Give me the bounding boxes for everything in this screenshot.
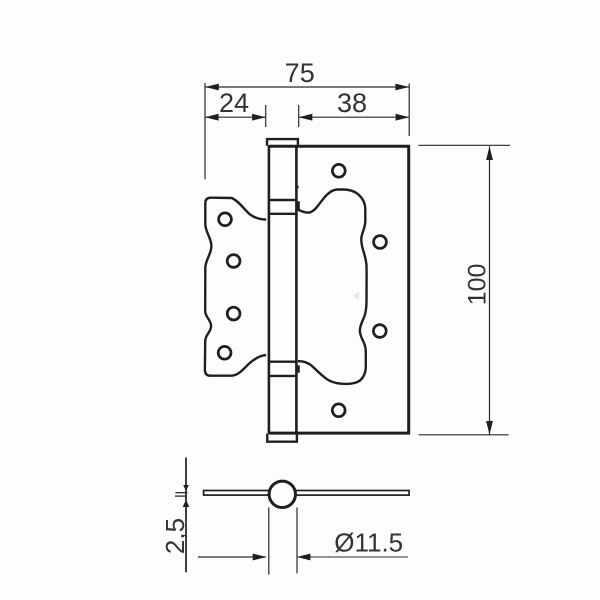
extension line right — [408, 84, 410, 137]
svg-text:75: 75 — [285, 58, 315, 88]
barrel knuckle divider 2 — [268, 213, 298, 215]
svg-text:2,5: 2,5 — [160, 518, 190, 554]
watermark arrow — [352, 292, 359, 299]
arrow 100 top — [486, 146, 493, 160]
barrel bottom cap — [267, 434, 297, 442]
extension line knuckle left — [265, 105, 267, 127]
barrel top joint lug — [297, 201, 300, 210]
barrel right edge — [295, 145, 298, 434]
right leaf hole bottom — [332, 404, 345, 417]
extension line 100 top — [418, 144, 510, 146]
svg-text:100: 100 — [464, 264, 492, 306]
barrel knuckle divider 1 — [268, 199, 298, 201]
right leaf hole lower right — [373, 325, 386, 338]
left leaf outline — [205, 198, 266, 376]
tick 2.5 lower — [175, 495, 187, 497]
right leaf hole upper right — [374, 236, 387, 249]
dimension line 75 — [205, 86, 409, 88]
dimension line diameter right — [297, 556, 408, 558]
dimension line 24 — [205, 116, 266, 118]
arrow 24 left — [205, 114, 219, 121]
right leaf cutout — [298, 190, 367, 384]
tick 2.5 upper — [175, 492, 187, 494]
extension line 100 bottom — [419, 434, 509, 436]
extension line left — [204, 83, 206, 179]
right leaf outline — [269, 146, 409, 433]
right leaf hole top — [332, 164, 345, 177]
arrow diameter left — [253, 554, 267, 561]
arrow 75 left — [205, 84, 219, 91]
dimension line 100 — [489, 146, 491, 434]
arrow 75 right — [395, 84, 409, 91]
barrel knuckle divider 4 — [268, 375, 298, 377]
extension line diameter right — [296, 508, 298, 574]
barrel small mark — [297, 186, 299, 189]
arrow 2.5 upper — [183, 485, 189, 491]
left leaf hole 4 — [218, 346, 231, 359]
dimension line 2.5 — [185, 458, 187, 573]
bottom view plate — [204, 491, 410, 496]
arrow 38 left — [299, 114, 313, 121]
barrel bottom joint lug — [296, 365, 299, 372]
bottom view knuckle circle — [269, 481, 295, 507]
barrel top cap — [267, 139, 298, 146]
svg-text:38: 38 — [337, 88, 367, 118]
extension line diameter left — [268, 508, 270, 575]
arrow diameter right — [297, 554, 311, 561]
arrow 24 right — [252, 114, 266, 121]
svg-text:24: 24 — [219, 88, 249, 118]
svg-text:Ø11.5: Ø11.5 — [334, 528, 403, 558]
arrow 2.5 lower — [183, 500, 190, 508]
arrow 100 bottom — [486, 421, 493, 435]
barrel knuckle divider 3 — [268, 361, 298, 363]
dimension line diameter left — [198, 556, 266, 558]
extension line knuckle right — [298, 105, 300, 127]
barrel left edge — [268, 145, 271, 434]
left leaf hole 2 — [227, 255, 240, 268]
dimension line 38 — [299, 116, 410, 118]
left leaf hole 1 — [219, 213, 232, 226]
left leaf hole 3 — [227, 307, 240, 320]
arrow 38 right — [396, 114, 410, 121]
